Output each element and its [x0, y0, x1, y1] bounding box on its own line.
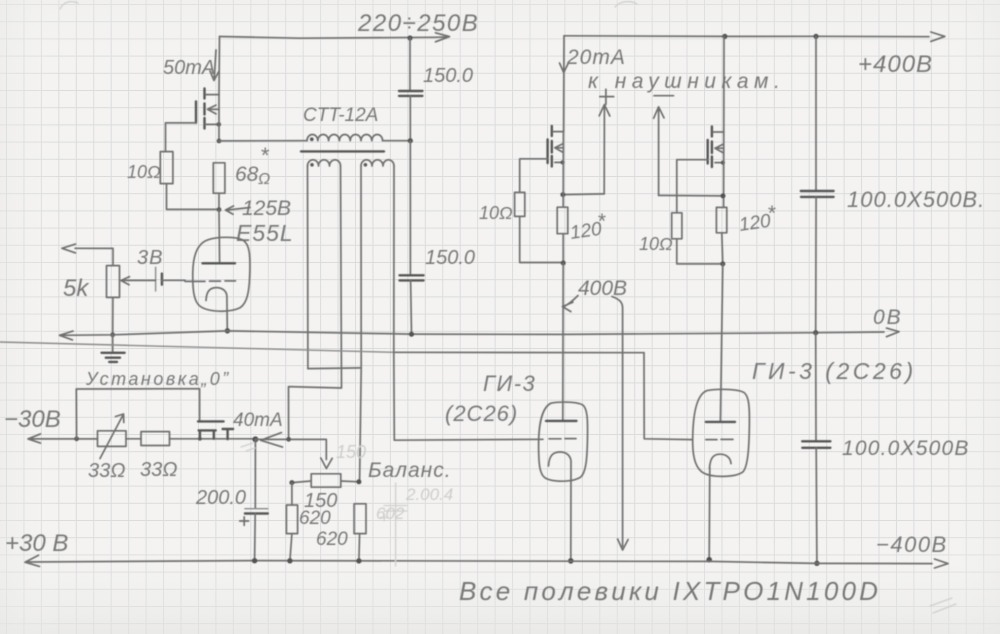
wire: node to balance wiper — [255, 439, 326, 459]
tube V2 GI-3 envelope — [539, 402, 588, 481]
wire: secondary B left lead down — [360, 166, 362, 368]
node: bracket / -30V line — [74, 436, 79, 441]
svg-text:50mA: 50mA — [163, 57, 215, 79]
svg-text:10Ω: 10Ω — [127, 162, 161, 182]
node: V1 cathode to 0V rail — [225, 328, 230, 333]
tube V3 GI-3 envelope — [693, 389, 750, 476]
svg-text:Баланс.: Баланс. — [368, 459, 452, 482]
arrowhead 0V rail right — [887, 328, 900, 337]
wire: R7 bottom / node — [722, 233, 723, 264]
grid (dashed) V2 — [549, 438, 576, 440]
svg-text:10Ω: 10Ω — [479, 203, 513, 223]
node: C4 / bottom rail — [814, 561, 819, 566]
wire: secondary A left lead down — [307, 166, 309, 369]
wire: rail corner down to Q2 drain — [563, 36, 565, 132]
node: V2 cathode / bottom rail — [568, 558, 574, 564]
node: rail / Q3 drain — [722, 34, 727, 39]
node 125V — [217, 207, 222, 212]
transformer T1 primary winding — [307, 135, 383, 141]
ground symbol — [112, 335, 114, 352]
resistor R2 68 ohm — [213, 163, 225, 193]
node: C3 / 0V rail — [813, 330, 818, 335]
wire: bias to V2 grid — [394, 352, 543, 440]
node: balance right — [356, 479, 361, 484]
resistor R11 620 — [286, 505, 297, 534]
svg-text:−30B: −30B — [4, 406, 61, 433]
ghost erased capacitor — [381, 483, 408, 566]
wire: down to V3 plate — [720, 264, 722, 422]
wire: battery to pot wiper with arrowhead — [121, 277, 156, 285]
wire: source to transformer primary left — [219, 140, 307, 142]
svg-text:40mA: 40mA — [233, 410, 283, 431]
wire: R2 to node — [218, 193, 220, 209]
svg-text:к наушникам.: к наушникам. — [588, 70, 785, 93]
wire: pot top to input arrow — [62, 244, 113, 266]
svg-text:400B: 400B — [578, 277, 627, 300]
svg-text:100.0Х500B.: 100.0Х500B. — [847, 187, 985, 212]
wire: top-right supply rail +400V — [564, 35, 929, 38]
svg-text:602: 602 — [376, 504, 405, 523]
ghost hook top left — [60, 2, 78, 9]
svg-text:*: * — [767, 202, 776, 225]
resistor R12 620 — [354, 504, 366, 534]
svg-text:5k: 5k — [63, 275, 90, 302]
transformer T1 secondary winding A — [308, 160, 341, 166]
svg-text:20mA: 20mA — [566, 46, 626, 69]
potentiometer R3 5k — [107, 266, 120, 298]
wire: R4 bottom to Q2 source column — [520, 216, 564, 262]
wire: V3 cathode lead — [708, 468, 711, 558]
transistor Q1 (IXTP01N100D, driver) — [166, 89, 222, 152]
svg-text:10Ω: 10Ω — [639, 234, 673, 254]
plate (anode) V3 — [706, 421, 735, 423]
wire: plate lead V1 — [218, 210, 221, 263]
node: R12 / bottom rail — [356, 558, 361, 563]
cathode V3 — [710, 454, 732, 468]
svg-text:*: * — [260, 143, 270, 168]
wire: A-B link — [308, 367, 361, 370]
svg-text:150.0: 150.0 — [423, 65, 473, 87]
transformer T1 secondary winding B — [361, 160, 394, 166]
battery B1 3V — [155, 267, 157, 291]
grid (dashed) V3 — [706, 438, 733, 440]
wire: 0V rail — [60, 331, 884, 335]
svg-text:33Ω: 33Ω — [140, 459, 177, 481]
svg-text:CTT-12A: CTT-12A — [303, 105, 378, 126]
svg-text:Установка„0”: Установка„0” — [85, 369, 231, 389]
wire: primary right to C1 — [383, 140, 411, 142]
resistor R6 10 ohm (Q3 gate) — [672, 213, 682, 239]
cathode V2 — [549, 452, 572, 559]
svg-text:2.00.4: 2.00.4 — [405, 485, 453, 504]
node: C5 / bottom rail — [252, 558, 257, 563]
capacitor C4 100.0x500V — [815, 333, 817, 441]
transformer core — [301, 150, 384, 152]
arrowhead 0V rail left — [60, 331, 74, 340]
svg-text:−400B: −400B — [876, 532, 948, 557]
resistor R1 10 ohm (gate) — [160, 152, 173, 184]
variable resistor R8 33 ohm — [98, 431, 127, 447]
svg-text:Bce пoлeвики IXTPO1N100D: Bce пoлeвики IXTPO1N100D — [459, 576, 881, 606]
wire: R9 to 40mA node — [170, 438, 256, 440]
wire: arrow2 to Q3 source node — [659, 194, 724, 197]
transistor Q2 (IXTP01N100D, left output) — [520, 126, 565, 207]
transistor Q3 (IXTP01N100D, right output) — [677, 36, 725, 212]
wire: between 33 ohm resistors — [126, 438, 141, 440]
transistor Q4 symbol (series regulator) — [198, 420, 224, 422]
resistor R5 120* — [557, 207, 568, 234]
svg-text:3B: 3B — [137, 247, 163, 269]
plus polarity mark — [600, 89, 614, 104]
phase dot secondary B — [364, 163, 368, 167]
wire: -30V line with arrowhead — [28, 434, 98, 443]
ghost smudge near 40mA node — [241, 443, 255, 451]
svg-text:ГИ-3: ГИ-3 — [483, 371, 536, 396]
resistor R7 120* — [716, 207, 726, 232]
svg-text:150.0: 150.0 — [425, 247, 475, 269]
plate (anode) V2 — [546, 420, 577, 422]
node: V3 cathode / bottom rail — [706, 557, 712, 563]
arrowhead bottom rail right — [935, 559, 949, 568]
wire: pot bottom to 0V — [112, 297, 114, 334]
svg-text:220÷250B: 220÷250B — [357, 10, 479, 37]
svg-text:ГИ-3 (2C26): ГИ-3 (2C26) — [752, 358, 917, 384]
wire: secondary midpoint down to balance pot — [360, 368, 362, 482]
wire: grid bias line right part — [394, 351, 644, 353]
arrowhead 400V down — [618, 539, 629, 550]
svg-text:(2C26): (2C26) — [445, 401, 518, 426]
minus polarity mark — [654, 95, 674, 97]
svg-text:200.0: 200.0 — [195, 487, 246, 509]
svg-text:620: 620 — [299, 508, 331, 529]
arrowhead into 40mA node — [261, 433, 283, 447]
wire: bias to V3 grid — [644, 353, 693, 440]
resistor R9 33 ohm — [141, 432, 170, 446]
wire: R5 bottom / node — [562, 234, 564, 263]
resistor R4 10 ohm (Q2 gate) — [515, 192, 525, 216]
node: rail / C3 — [813, 34, 818, 39]
svg-text:33Ω: 33Ω — [88, 460, 125, 482]
arrowhead +400V rail — [931, 32, 945, 41]
current arrow 50mA — [210, 50, 219, 81]
capacitor C1 150.0 — [409, 38, 411, 91]
ghost hook top middle — [615, 2, 637, 7]
svg-text:+400B: +400B — [858, 51, 933, 78]
wire: secondary A right lead down and over — [289, 166, 342, 439]
svg-text:0B: 0B — [873, 306, 903, 329]
polarity + C5 — [240, 517, 249, 526]
node: Q2 source junction — [560, 192, 565, 197]
wire: top-left supply rail 220-250V — [220, 37, 448, 39]
wire: secondary B right lead down — [393, 166, 395, 352]
node: rail / C1 — [407, 35, 412, 40]
svg-text:125B: 125B — [242, 197, 291, 220]
capacitor C3 100.0x500V — [815, 36, 817, 190]
node: Q2 bottom junction — [561, 261, 566, 266]
wire: arrow1 to Q2 source node — [563, 193, 604, 196]
wire: down to V2 plate — [562, 263, 564, 421]
node: Q1 source / primary junction — [217, 139, 222, 144]
balance potentiometer R10 — [311, 474, 341, 487]
svg-text:Ω: Ω — [258, 171, 270, 188]
ghost scribble bottom right — [930, 598, 956, 613]
node: R11 / bottom rail — [287, 558, 292, 563]
node: C2 / 0V rail — [409, 332, 414, 337]
wire: R6 bottom to Q3 column — [677, 239, 723, 264]
wire: battery to grid — [162, 279, 185, 281]
wire: bottom rail +30V / -400V — [26, 561, 932, 564]
phase dot primary — [310, 137, 314, 141]
node: 40mA junction — [252, 436, 258, 442]
svg-text:150: 150 — [336, 442, 366, 462]
current arrow 20mA — [560, 63, 569, 73]
cathode V1 — [206, 288, 227, 331]
headphone arrow 1 (up) — [599, 105, 610, 194]
wire: grid bias line (faint left part) — [0, 342, 394, 352]
wire: R1 bottom to node — [167, 184, 220, 210]
arrowhead 220-250V rail — [436, 33, 450, 42]
arrowhead bottom rail left — [25, 555, 40, 566]
grid (dashed) V1 — [185, 280, 236, 283]
node: winding A feed joins — [286, 437, 291, 442]
node: pot / ground on 0V rail — [110, 332, 115, 337]
wire: Ustanovka bracket — [76, 389, 199, 439]
svg-text:100.0Х500B: 100.0Х500B — [842, 437, 970, 460]
wire: drain lead Q1 — [218, 37, 221, 95]
tube V1 E55L envelope — [193, 237, 250, 311]
svg-text:*: * — [597, 210, 606, 233]
phase dot secondary A — [310, 163, 314, 167]
plate (anode) V1 — [203, 262, 236, 264]
svg-text:68: 68 — [235, 163, 259, 186]
capacitor C2 150.0 — [409, 141, 411, 275]
node: Q3 source junction — [721, 193, 726, 198]
arrowhead onto balance wiper — [321, 458, 332, 469]
node: Q3 bottom junction — [720, 261, 725, 266]
headphone arrow 2 (up) — [654, 107, 664, 195]
node: balance left — [289, 480, 294, 485]
capacitor C5 200.0 — [254, 439, 256, 508]
svg-text:+30 B: +30 B — [5, 530, 68, 557]
svg-text:620: 620 — [316, 529, 348, 550]
node: primary / C1 — [408, 138, 413, 143]
